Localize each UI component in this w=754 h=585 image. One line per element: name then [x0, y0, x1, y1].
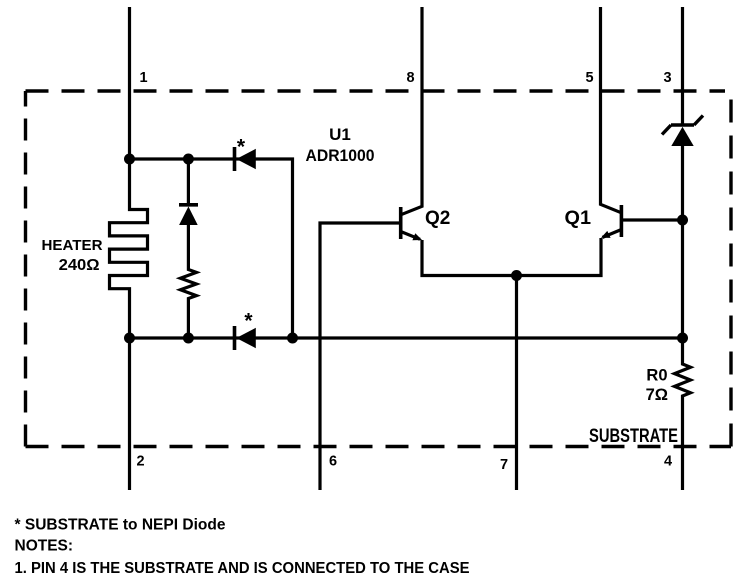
svg-text:Q2: Q2	[425, 208, 450, 229]
svg-text:*: *	[237, 136, 246, 159]
svg-text:240Ω: 240Ω	[59, 257, 100, 274]
svg-text:1. PIN 4 IS THE SUBSTRATE AND: 1. PIN 4 IS THE SUBSTRATE AND IS CONNECT…	[15, 560, 470, 577]
svg-text:U1: U1	[329, 125, 351, 144]
svg-text:5: 5	[586, 70, 594, 86]
svg-text:* SUBSTRATE to NEPI Diode: * SUBSTRATE to NEPI Diode	[15, 517, 226, 534]
svg-text:SUBSTRATE: SUBSTRATE	[589, 426, 678, 447]
svg-text:3: 3	[664, 70, 672, 86]
svg-text:*: *	[244, 310, 253, 333]
svg-text:ADR1000: ADR1000	[306, 147, 375, 165]
svg-text:1: 1	[140, 70, 148, 86]
svg-text:R0: R0	[646, 367, 667, 385]
svg-text:HEATER: HEATER	[42, 238, 104, 254]
svg-text:NOTES:: NOTES:	[15, 538, 74, 555]
svg-text:8: 8	[407, 70, 415, 86]
svg-text:7: 7	[500, 457, 508, 473]
svg-text:4: 4	[664, 454, 672, 470]
svg-text:7Ω: 7Ω	[646, 386, 668, 404]
svg-text:2: 2	[137, 454, 145, 470]
svg-text:6: 6	[329, 454, 337, 470]
svg-text:Q1: Q1	[565, 208, 592, 229]
